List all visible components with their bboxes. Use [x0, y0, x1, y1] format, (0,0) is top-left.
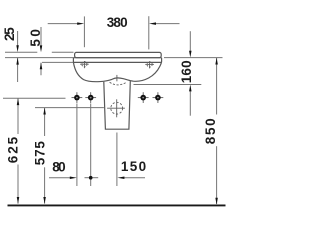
dimension 150 right arrow: [124, 177, 146, 179]
dimension 850 line with end arrows: [216, 58, 218, 115]
dimension 50 lower arrow: [40, 63, 42, 76]
fixing hole symbol far-right: [153, 92, 164, 103]
bowl outline: [73, 62, 161, 81]
wire: centre extension line below siphon: [116, 133, 118, 187]
wire: right extension line rim-bottom level y57.6: [164, 57, 223, 59]
fixing hole symbol mid-left: [85, 92, 96, 103]
siphon cover: [104, 81, 131, 129]
hidden drain arc (dashed): [110, 82, 127, 85]
wire: left extension line rim-top level y52 (two segments): [5, 51, 37, 53]
wire: extension line from right tap cross up (380 right): [148, 16, 150, 49]
junction dot on dimension line: [89, 176, 93, 180]
centre tick above drain: [116, 75, 118, 81]
wire: extension line below left fixing hole 2: [90, 104, 92, 187]
dimension 25 upper arrow: [17, 31, 19, 47]
fixing hole symbol mid-right: [138, 92, 149, 103]
wire: left extension line fixing-hole level y98: [3, 97, 66, 99]
dimension 80 line with arrow and dot: [49, 177, 71, 179]
tap hole cross right (on rim): [145, 61, 154, 68]
svg-text:625: 625: [6, 136, 21, 163]
dimension 160 upper arrow: [189, 31, 191, 51]
wire: extension line below left fixing hole 1: [76, 104, 78, 187]
svg-text:25: 25: [2, 27, 17, 41]
svg-text:160: 160: [179, 60, 194, 83]
svg-text:575: 575: [33, 141, 48, 166]
svg-text:850: 850: [203, 118, 218, 144]
svg-text:80: 80: [52, 160, 65, 175]
wire: left extension line rim-bottom level y57.6: [5, 57, 74, 59]
siphon screw cross: [107, 99, 125, 117]
basin rim band: [75, 52, 162, 57]
dimension 380 line left part with arrow: [48, 23, 78, 25]
wire: extension line from left tap cross up (380 left): [83, 16, 85, 47]
tap hole cross left (on rim): [80, 61, 89, 68]
basin lower rim band: [73, 58, 161, 63]
svg-text:150: 150: [121, 159, 146, 174]
wire: right extension line y84.5 (lower ref of 160): [134, 84, 202, 86]
svg-text:380: 380: [107, 15, 128, 30]
fixing hole symbol far-left: [72, 92, 83, 103]
dimension 160 lower arrow: [189, 90, 191, 116]
dimension 50 upper arrow: [40, 27, 42, 47]
wire: left extension line siphon-screw level y107.6: [35, 107, 104, 109]
wire: left extension line bowl-edge level y62.4: [42, 61, 73, 63]
dimension 625 line with end arrows: [17, 98, 19, 134]
floor line: [8, 204, 226, 206]
dimension 380 line right part with arrow: [155, 23, 180, 25]
dimension 25 lower arrow: [17, 58, 19, 82]
dimension 575 line with end arrows: [44, 108, 46, 136]
